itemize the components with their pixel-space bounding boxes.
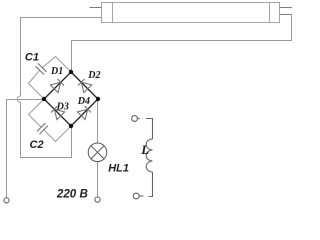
svg-text:C1: C1 [25,52,39,64]
bridge diamond edges [44,72,98,126]
wire: tube bottom-left pin to left vertical [21,18,102,97]
wire: bridge right vertex down to lamp [97,99,99,143]
svg-text:D4: D4 [77,96,90,107]
connector top of inductor [132,116,153,139]
capacitor C1 branch wires [42,57,71,73]
svg-text:D1: D1 [50,66,63,77]
wire: lamp to bottom terminal [97,162,99,197]
capacitor C2 branch wires [29,99,45,127]
wire: left vertical down, bottom run, up to bridge bottom vertex [21,102,72,157]
junction dot right vertex [96,97,100,101]
svg-text:D3: D3 [56,101,69,112]
wire: right side down, top run, down to bridge top vertex [72,15,292,73]
diode D1 symbol [50,78,64,92]
junction dot left vertex [42,97,46,101]
tube pin bottom-right stub [280,14,292,16]
diode D3 symbol [50,105,64,119]
junction dot bottom vertex [69,124,73,128]
terminal circle 220V left [4,198,9,203]
svg-text:C2: C2 [30,139,44,151]
lamp HL1 symbol [88,143,107,162]
wire: AC input horizontal to bridge left vertex [7,100,45,198]
junction dot top vertex [69,70,73,74]
svg-text:220 В: 220 В [56,187,88,200]
diode D2 symbol [77,78,91,92]
svg-text:L: L [140,142,149,157]
tube pin top-left stub [90,7,102,9]
fluorescent tube EL1 body [102,3,280,23]
capacitor C1 plates [36,64,47,75]
svg-text:HL1: HL1 [108,163,129,175]
connector bottom of inductor [133,172,152,199]
capacitor C2 plates [37,123,48,134]
diode D4 symbol [77,105,91,119]
inductor L coil [146,139,152,172]
terminal circle lamp bottom [95,197,100,202]
tube pin top-right stub [280,7,293,9]
wire hop over AC wire [17,96,20,102]
svg-text:D2: D2 [87,70,100,81]
